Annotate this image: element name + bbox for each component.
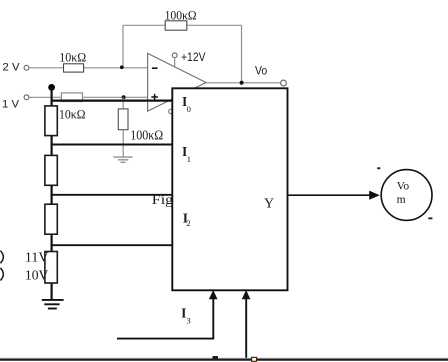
wire: R7 to op-amp non-inverting input [83,96,148,98]
svg-text:Vo: Vo [397,181,410,193]
wire: R2 to feedback right vertical [187,24,242,26]
junction: 1V node tap (black dot) [48,84,55,91]
wire: feedback right vertical down to output [241,25,243,83]
wire: I0 line to MUX [51,99,173,101]
wire: 2V terminal to R1 [29,67,64,69]
label: option a) paren (clipped at page edge) [0,251,3,264]
wire: bottom horizontal rule [0,359,448,361]
wire: R8 to ground [122,130,124,157]
svg-text:11V: 11V [25,251,49,266]
wire: op-amp output to Vo terminal [206,82,281,84]
wire: I3 tap line to MUX [51,244,173,246]
wire: +12V stem to op-amp body [174,58,176,67]
svg-text:100κΩ: 100κΩ [165,8,197,23]
node: 2V input terminal [24,65,29,70]
resistor R8 100kΩ to ground [118,109,128,130]
svg-text:10κΩ: 10κΩ [59,107,86,122]
svg-text:10κΩ: 10κΩ [59,50,86,65]
svg-text:m: m [397,194,406,206]
svg-text:2: 2 [186,218,190,228]
voltmeter M1 [381,170,432,221]
wire: R6 to ground [50,283,52,300]
ground (chain bottom) [42,300,64,309]
svg-text:10V: 10V [25,268,49,283]
wire: I3 select line (L-shape) [117,299,213,339]
svg-text:3: 3 [187,316,191,326]
wire: R1 to op-amp inverting input [84,67,148,69]
wire: select line 2 vertical [245,299,247,359]
arrow head: into voltmeter [369,191,380,200]
wire: 1V terminal to R7 [29,96,62,98]
wire: feedback left vertical [122,25,124,67]
wire: junction down to R8 [122,97,124,109]
junction: output / feedback [240,81,244,85]
wire: I1 tap line to MUX [51,144,173,146]
node: op-amp output terminal circle (partly hidden by block) [169,109,173,113]
resistor R1 10kΩ [64,64,84,72]
mark: small open square on bottom rule [252,357,257,361]
svg-text:Fig: Fig [152,193,173,208]
svg-text:+12V: +12V [181,50,206,64]
junction: feedback / inverting input [120,65,124,69]
mark: small bump on bottom rule [213,356,219,359]
svg-text:0: 0 [187,104,191,114]
wire: R3 to R4 [50,136,52,156]
wire: R5 to R6 [50,234,52,251]
wire: R4 to R5 [50,185,52,204]
svg-text:1: 1 [187,154,191,164]
ground (grey, under R8) [113,157,132,162]
junction: 1V line / R8 top [122,95,126,99]
mark: handle dot top-left of meter [377,167,380,169]
resistor R6 (ladder) [45,252,57,284]
mark: handle dash bottom-right of meter [428,217,432,219]
svg-text:Vo: Vo [255,64,267,78]
wire: chain vertical, dot to R3 [50,87,52,106]
svg-text:2 V: 2 V [3,61,21,73]
wire: feedback top run to R2 [123,24,165,26]
resistor R4 (ladder) [45,155,57,185]
node: 1V input terminal [24,95,29,100]
svg-text:100κΩ: 100κΩ [130,128,163,143]
op-amp U1 [148,53,206,111]
resistor R7 (grey, on 1V line) [61,93,82,102]
resistor R5 (ladder) [45,204,57,234]
arrow head: into MUX bottom (right) [242,290,251,299]
wire: I2 tap line to MUX [51,194,173,196]
label: option b) paren (clipped at page edge) [0,268,3,281]
wire: Y output to voltmeter [288,194,370,196]
arrow head: into MUX bottom (left) [209,290,218,299]
resistor R3 10kΩ (ladder) [45,106,57,136]
pin: non-inverting input mark [151,94,158,101]
svg-text:1 V: 1 V [2,99,20,111]
resistor R2 100kΩ feedback [165,21,187,30]
multiplexer U2 block [172,88,287,290]
node: Vo output terminal [281,80,287,86]
pin: inverting input mark [152,67,158,69]
wire: bottom rule shadow [0,357,448,359]
svg-text:Y: Y [264,196,274,211]
power: +12V terminal [172,53,177,58]
